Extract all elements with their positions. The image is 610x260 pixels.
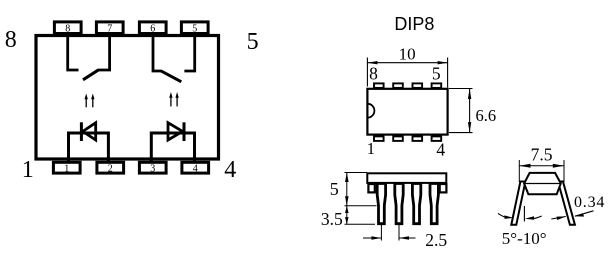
IC body U1 xyxy=(36,36,219,160)
svg-text:1: 1 xyxy=(22,157,34,183)
top view pin 1 label xyxy=(367,139,375,158)
top view top pins xyxy=(374,83,441,88)
pin label 4 xyxy=(224,157,236,183)
svg-text:4: 4 xyxy=(436,140,445,160)
side view left tab xyxy=(368,184,374,192)
pin box 2 xyxy=(97,162,124,174)
phototransistor Q1 emitter wire (pin 7) xyxy=(83,35,110,80)
pin label 5 xyxy=(247,29,259,55)
side view pin 2 xyxy=(395,184,403,224)
light arrows channel 1 xyxy=(85,94,95,108)
top view pin 4 label xyxy=(436,140,445,160)
pin label 1 xyxy=(22,157,34,183)
light arrows channel 2 xyxy=(169,92,179,106)
dimension 3.5 xyxy=(321,206,377,229)
svg-text:5: 5 xyxy=(330,179,339,199)
angle arc arrows 5-10 deg xyxy=(498,213,547,248)
top view pin 8 label xyxy=(369,63,378,83)
side view body xyxy=(367,173,446,183)
pin box 1 xyxy=(53,162,80,174)
pin box 6 xyxy=(139,22,166,34)
side view right tab xyxy=(440,184,447,192)
side view pin 3 xyxy=(412,184,420,224)
svg-text:8: 8 xyxy=(369,63,378,83)
svg-text:4: 4 xyxy=(224,157,236,183)
top view notch xyxy=(367,104,374,118)
svg-text:1: 1 xyxy=(367,139,375,158)
end view left leg xyxy=(511,182,525,225)
svg-text:8: 8 xyxy=(5,27,17,53)
end view body xyxy=(524,173,561,194)
title DIP8 xyxy=(394,14,434,34)
LED D2 bracket wire xyxy=(151,133,194,161)
dimension 6.6 xyxy=(449,89,496,133)
phototransistor Q2 emitter wire (pin 5) xyxy=(184,35,194,71)
svg-text:7.5: 7.5 xyxy=(531,145,553,165)
svg-text:5: 5 xyxy=(192,23,197,34)
top view pin 5 label xyxy=(432,64,441,84)
LED D2 diode symbol xyxy=(168,122,184,141)
svg-text:10: 10 xyxy=(399,45,416,64)
pin box 4 xyxy=(182,162,209,174)
LED D1 bracket wire xyxy=(69,133,109,161)
svg-text:6.6: 6.6 xyxy=(476,106,497,125)
dimension 5 xyxy=(330,173,367,206)
dimension 2.5 xyxy=(363,225,447,250)
end view right leg xyxy=(558,182,575,225)
pin box 5 xyxy=(181,22,208,34)
side view pin 1 xyxy=(377,184,385,224)
svg-text:5: 5 xyxy=(247,29,259,55)
top view bottom pins xyxy=(374,136,441,141)
svg-text:5: 5 xyxy=(432,64,441,84)
pin box 8 xyxy=(54,22,81,34)
dimension 7.5 xyxy=(519,145,564,182)
phototransistor Q2 collector wire (pin 6) xyxy=(153,35,181,82)
dimension 0.34 leader arrows xyxy=(551,194,605,220)
pin label 8 xyxy=(5,27,17,53)
phototransistor Q1 collector wire (pin 8) xyxy=(68,35,79,70)
LED D1 diode symbol xyxy=(81,122,95,141)
svg-text:7: 7 xyxy=(107,23,112,34)
angle reference line xyxy=(523,206,525,222)
pin box 3 xyxy=(139,162,166,174)
side view pin 4 xyxy=(430,184,438,224)
top view body xyxy=(367,89,447,135)
svg-text:2: 2 xyxy=(108,163,113,174)
svg-text:5°-10°: 5°-10° xyxy=(502,229,547,248)
svg-text:8: 8 xyxy=(65,23,70,34)
svg-text:DIP8: DIP8 xyxy=(394,14,434,34)
svg-text:3.5: 3.5 xyxy=(321,209,343,229)
svg-text:1: 1 xyxy=(64,163,69,174)
svg-text:6: 6 xyxy=(150,23,155,34)
pin box 7 xyxy=(96,22,123,34)
svg-text:0.34: 0.34 xyxy=(574,194,605,211)
svg-text:3: 3 xyxy=(150,163,155,174)
dimension 10 xyxy=(367,45,447,88)
svg-text:4: 4 xyxy=(193,163,198,174)
svg-text:2.5: 2.5 xyxy=(425,230,447,250)
